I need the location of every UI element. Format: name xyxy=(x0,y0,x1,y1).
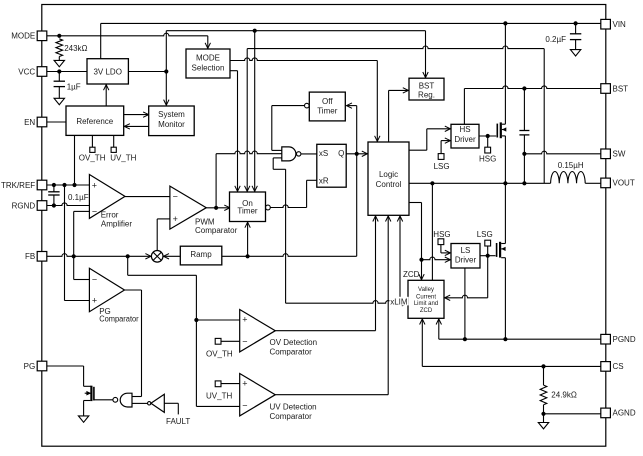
svg-text:+: + xyxy=(92,181,97,191)
svg-text:xR: xR xyxy=(319,177,329,186)
svg-text:+: + xyxy=(92,296,97,306)
svg-text:Comparator: Comparator xyxy=(270,347,313,356)
svg-text:+: + xyxy=(173,214,178,224)
svg-text:RGND: RGND xyxy=(12,201,36,210)
svg-text:AGND: AGND xyxy=(613,409,636,418)
svg-text:HS: HS xyxy=(459,125,470,134)
svg-text:+: + xyxy=(242,378,247,388)
svg-text:CS: CS xyxy=(613,362,624,371)
svg-text:OV_TH: OV_TH xyxy=(206,349,233,358)
svg-text:xLIM: xLIM xyxy=(390,297,408,306)
svg-text:Reg.: Reg. xyxy=(418,90,435,99)
svg-text:−: − xyxy=(173,192,178,202)
svg-text:Comparator: Comparator xyxy=(270,412,313,421)
svg-text:LSG: LSG xyxy=(477,230,493,239)
svg-text:TRK/REF: TRK/REF xyxy=(1,181,35,190)
svg-text:Timer: Timer xyxy=(237,207,257,216)
svg-text:EN: EN xyxy=(24,118,35,127)
svg-text:ZCD: ZCD xyxy=(403,270,420,279)
svg-text:VIN: VIN xyxy=(613,20,627,29)
svg-text:Timer: Timer xyxy=(317,107,337,116)
svg-text:Logic: Logic xyxy=(379,170,398,179)
svg-text:FB: FB xyxy=(25,252,35,261)
svg-text:Selection: Selection xyxy=(192,64,225,73)
svg-text:243kΩ: 243kΩ xyxy=(64,44,87,53)
svg-text:1µF: 1µF xyxy=(67,82,81,91)
svg-text:24.9kΩ: 24.9kΩ xyxy=(551,390,577,399)
svg-text:−: − xyxy=(242,401,247,411)
svg-text:−: − xyxy=(92,207,97,217)
svg-text:HSG: HSG xyxy=(433,230,450,239)
svg-text:Reference: Reference xyxy=(76,117,113,126)
svg-text:Monitor: Monitor xyxy=(158,120,185,129)
svg-text:OV Detection: OV Detection xyxy=(270,338,318,347)
svg-text:ZCD: ZCD xyxy=(420,308,433,314)
svg-text:Comparator: Comparator xyxy=(195,226,238,235)
svg-text:Off: Off xyxy=(322,97,333,106)
svg-text:Error: Error xyxy=(101,211,119,220)
svg-text:Q: Q xyxy=(338,149,344,158)
svg-text:PGND: PGND xyxy=(613,335,636,344)
svg-text:PG: PG xyxy=(24,362,36,371)
svg-text:Comparator: Comparator xyxy=(99,315,139,324)
svg-text:Amplifier: Amplifier xyxy=(101,220,132,229)
svg-text:Driver: Driver xyxy=(455,256,477,265)
svg-text:LSG: LSG xyxy=(434,162,450,171)
svg-text:MODE: MODE xyxy=(11,32,35,41)
svg-text:Ramp: Ramp xyxy=(190,250,212,259)
svg-text:MODE: MODE xyxy=(196,53,220,62)
svg-text:BST: BST xyxy=(419,82,435,91)
svg-text:0.2µF: 0.2µF xyxy=(545,35,566,44)
svg-text:BST: BST xyxy=(613,84,629,93)
svg-text:Valley: Valley xyxy=(418,287,434,293)
svg-text:UV Detection: UV Detection xyxy=(270,402,317,411)
svg-text:FAULT: FAULT xyxy=(166,417,190,426)
svg-text:0.1µF: 0.1µF xyxy=(68,193,89,202)
svg-text:Current: Current xyxy=(416,294,436,300)
svg-text:Control: Control xyxy=(376,180,402,189)
svg-text:+: + xyxy=(242,314,247,324)
svg-text:0.15µH: 0.15µH xyxy=(558,161,584,170)
svg-text:Limit and: Limit and xyxy=(414,301,438,307)
svg-text:3V LDO: 3V LDO xyxy=(93,67,121,76)
svg-text:OV_TH: OV_TH xyxy=(79,154,106,163)
svg-text:UV_TH: UV_TH xyxy=(206,392,232,401)
svg-text:LS: LS xyxy=(461,246,471,255)
svg-text:xS: xS xyxy=(319,149,328,158)
svg-text:SW: SW xyxy=(613,150,626,159)
svg-text:System: System xyxy=(158,110,185,119)
svg-text:−: − xyxy=(92,274,97,284)
svg-text:UV_TH: UV_TH xyxy=(110,154,136,163)
svg-text:−: − xyxy=(242,337,247,347)
svg-text:Driver: Driver xyxy=(454,135,476,144)
svg-text:VCC: VCC xyxy=(18,67,35,76)
svg-text:VOUT: VOUT xyxy=(613,179,635,188)
svg-text:HSG: HSG xyxy=(479,154,496,163)
